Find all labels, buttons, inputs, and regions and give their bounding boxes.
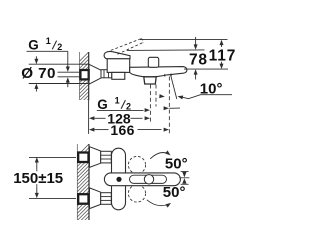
svg-text:50°: 50° [163,184,186,201]
svg-text:50°: 50° [165,155,188,172]
svg-text:1: 1 [46,36,51,46]
svg-text:166: 166 [110,122,134,138]
svg-text:117: 117 [209,47,237,64]
svg-text:2: 2 [57,42,62,52]
svg-text:Ø 70: Ø 70 [21,65,56,82]
svg-text:150±15: 150±15 [13,170,63,187]
svg-text:1: 1 [115,96,120,106]
svg-text:G: G [28,37,39,52]
svg-text:G: G [97,97,108,112]
svg-text:78: 78 [189,51,208,68]
